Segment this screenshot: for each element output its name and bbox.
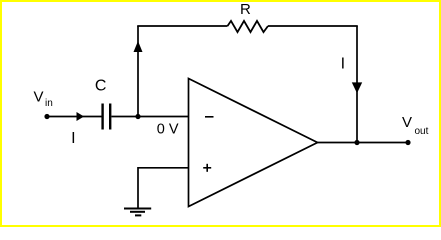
- resistor R: [228, 21, 269, 32]
- svg-text:V: V: [34, 89, 44, 106]
- wire capacitor to op-amp inverting input: [112, 116, 189, 118]
- arrow current I into capacitor: [77, 112, 85, 121]
- op-amp inverting input minus sign: [205, 116, 214, 118]
- svg-text:R: R: [240, 1, 251, 18]
- arrow feedback current downward: [352, 82, 362, 93]
- wire right vertical down to output: [356, 26, 358, 143]
- wire ground riser: [137, 167, 139, 209]
- label Vin: [34, 89, 53, 110]
- node junction at inverting input: [135, 114, 140, 119]
- op-amp non-inverting input plus sign: [203, 164, 211, 172]
- svg-text:I: I: [71, 130, 75, 147]
- node Vout terminal: [405, 140, 410, 145]
- svg-text:C: C: [95, 78, 107, 95]
- svg-text:out: out: [415, 126, 429, 137]
- wire non-inverting input to ground: [138, 167, 189, 169]
- node Vin input terminal: [44, 114, 49, 119]
- svg-text:0 V: 0 V: [157, 121, 179, 137]
- wire op-amp output: [318, 142, 409, 144]
- wire resistor to right corner: [268, 25, 358, 27]
- arrow feedback current upward: [134, 41, 143, 52]
- wire top left to resistor: [137, 25, 227, 27]
- svg-text:in: in: [45, 98, 53, 109]
- ground: [124, 209, 151, 216]
- label Vout: [402, 114, 429, 137]
- svg-text:V: V: [402, 114, 412, 131]
- op-amp U1: [189, 79, 318, 207]
- wire input to capacitor: [47, 116, 102, 118]
- node output junction: [354, 140, 359, 145]
- wire feedback left vertical: [137, 26, 139, 117]
- svg-text:I: I: [341, 56, 345, 73]
- capacitor C: [103, 104, 111, 130]
